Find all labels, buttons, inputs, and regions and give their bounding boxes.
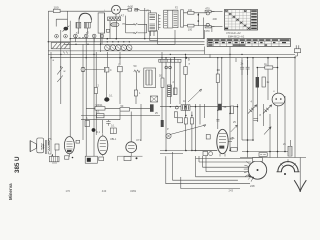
wire vertical x144.8 bbox=[144, 8, 146, 39]
capacitor bars x108 bbox=[106, 120, 110, 126]
wire speaker connections bbox=[49, 139, 51, 154]
svg-text:0,1: 0,1 bbox=[97, 131, 101, 134]
resistor diode load 1 bbox=[188, 11, 194, 14]
wire cap to cap bbox=[85, 69, 104, 71]
capacitor padder barrel bbox=[111, 23, 119, 27]
wire mid vertical x116.3 bbox=[115, 21, 117, 39]
wire IF1 tails bbox=[145, 11, 154, 37]
wire x221.8 vertical bbox=[221, 58, 223, 104]
box below IF1 bbox=[150, 31, 158, 41]
wire right vertical x285 bbox=[284, 96, 286, 152]
svg-text:400: 400 bbox=[213, 17, 218, 21]
wire middle bottom y150.5 bbox=[160, 150, 217, 152]
resistor vertical dark bottom right bbox=[288, 146, 292, 156]
resistor grid stopper bbox=[128, 8, 132, 11]
wire row y115.5 bbox=[81, 115, 160, 117]
svg-text:248: 248 bbox=[250, 184, 255, 188]
wire right vertical x268 bbox=[267, 58, 269, 100]
switch contact row circle 0b bbox=[64, 34, 68, 38]
wire speaker to phono box bbox=[52, 150, 55, 156]
wire mid vertical x94 bbox=[93, 38, 95, 156]
wire stub x236 bbox=[235, 58, 237, 62]
svg-text:0,1: 0,1 bbox=[111, 125, 115, 128]
junction dots mid buses bbox=[86, 38, 296, 59]
scattered tiny value labels bbox=[76, 7, 275, 143]
wire right y157.5 bbox=[240, 157, 306, 159]
svg-text:Minerva: Minerva bbox=[8, 183, 13, 200]
wire diode load vertical bbox=[197, 13, 199, 26]
electrolytic cap arrow 1 bbox=[248, 105, 257, 114]
wire return big L bbox=[166, 156, 250, 184]
wire to test point top bbox=[211, 12, 214, 27]
wire tube V2 top stub bbox=[102, 120, 104, 134]
wire top bus y11 bbox=[48, 10, 111, 12]
svg-text:4x50: 4x50 bbox=[128, 5, 134, 9]
resistor small box x78 bbox=[76, 140, 80, 143]
tube V4 base parts bbox=[192, 151, 218, 156]
switch contact row circle 4 bbox=[100, 34, 104, 38]
speaker cone bbox=[30, 141, 36, 152]
wire trimmer out 1 bbox=[211, 11, 222, 13]
wire row y106.7 right bbox=[160, 106, 238, 108]
wire row y119.7 bbox=[81, 119, 120, 121]
pot volume arrow bbox=[170, 125, 206, 135]
wire table corner up bbox=[204, 30, 206, 39]
resistor diode load 2 bbox=[188, 24, 194, 27]
resistor vertical box x185 row118 bbox=[184, 118, 187, 124]
wire right vertical x290 bbox=[290, 140, 292, 152]
resistor zigzag x136 bbox=[134, 70, 140, 73]
junction dot AVC 1 bbox=[198, 14, 200, 16]
wire row y106.7 bbox=[86, 107, 150, 109]
IF transformer 2 can bbox=[144, 68, 156, 88]
wire x230 vertical bbox=[229, 47, 231, 151]
tube V3 rectifier small circle bbox=[126, 142, 137, 156]
wire tube V1 to IF can bbox=[135, 9, 145, 12]
wire right vertical x253 bbox=[252, 58, 254, 140]
resistor vertical dark right1 bbox=[256, 77, 259, 88]
junction dots on bus bbox=[107, 41, 130, 42]
contact dots x167 bbox=[165, 66, 171, 69]
svg-text:243: 243 bbox=[229, 188, 234, 192]
ground arrow bottom right bbox=[294, 180, 306, 192]
capacitor mid column bbox=[104, 67, 109, 72]
wire arrow stem bbox=[299, 182, 301, 192]
junction dots right mid bbox=[247, 139, 286, 152]
resistor vertical x185 bbox=[184, 67, 187, 75]
junction dot S bbox=[185, 57, 187, 59]
boxes x113 row130 bbox=[110, 128, 116, 134]
resistor vertical x219 bbox=[216, 74, 219, 83]
capacitor blob x106 bbox=[104, 97, 109, 101]
svg-text:50011: 50011 bbox=[96, 103, 104, 107]
wire mid vertical x96 bbox=[95, 52, 97, 135]
wire tube V1 anode bbox=[120, 9, 128, 11]
motor dome half circle bbox=[277, 159, 300, 172]
wire mid vertical x110 bbox=[109, 21, 111, 39]
wire mid vertical x83 bbox=[82, 44, 84, 140]
wire x120 stub2 bbox=[119, 112, 121, 120]
tube V2 cathode box bbox=[85, 156, 97, 163]
coil antenna secondary box bbox=[84, 22, 90, 28]
junction dots left column bbox=[48, 38, 71, 68]
wire bus y54.4 bbox=[48, 53, 295, 55]
wire mid vertical x107 lower bbox=[106, 52, 109, 97]
electrolytic cap arrow 2 bbox=[263, 105, 272, 114]
phono switch box bottom left bbox=[49, 156, 59, 163]
wire IF2 verticals bbox=[162, 52, 175, 151]
coil horizontal dark x185 row107 bbox=[181, 105, 190, 111]
wire bottom long return bbox=[181, 177, 240, 189]
switch wafer diagonal left 2 bbox=[57, 76, 63, 83]
capacitor below tube A bbox=[65, 156, 74, 159]
resistor vertical x95 row88 bbox=[94, 88, 97, 94]
svg-text:0,1: 0,1 bbox=[96, 111, 100, 114]
wire mid vertical x120 lower bbox=[119, 72, 121, 104]
wire osc coil feed bbox=[126, 24, 147, 33]
capacitor ticks x218 bbox=[216, 119, 219, 121]
resistor small box x231 bottom bbox=[231, 148, 237, 152]
wire left vertical 2 bbox=[50, 52, 52, 140]
wire bus y50.9 bbox=[48, 50, 204, 52]
svg-text:C: C bbox=[118, 62, 120, 66]
wire return L4 bbox=[206, 171, 248, 173]
voltage table wide bbox=[207, 39, 290, 47]
IF transformer 1 can bbox=[148, 13, 156, 31]
resistor vertical dark x152 bbox=[150, 104, 154, 112]
wire right vertical x247.5 bbox=[247, 58, 249, 158]
coil vertical dark x169 bbox=[167, 85, 171, 97]
wire return verticals bbox=[196, 156, 207, 177]
wire right y151.5 bbox=[242, 151, 291, 153]
wire right vertical x277.5 bbox=[277, 58, 279, 158]
capacitor tuning gang hatched bbox=[51, 43, 70, 49]
svg-text:443: 443 bbox=[102, 189, 107, 193]
coil frame-antenna dome bbox=[79, 13, 92, 20]
wire return L2 bbox=[199, 161, 251, 163]
dial drum circle bbox=[244, 158, 267, 182]
box row114 bbox=[97, 114, 105, 118]
resistor vertical dark right2 bbox=[262, 77, 265, 87]
wire return L5 bbox=[196, 176, 251, 178]
switch contact row circle 3 bbox=[92, 34, 96, 38]
svg-text:100: 100 bbox=[188, 28, 193, 32]
wire vertical x146.7 bbox=[146, 24, 148, 33]
wire right vertical x295 bbox=[294, 56, 296, 158]
capacitor bars right mid bbox=[254, 119, 259, 121]
resistor antenna series bbox=[53, 9, 60, 12]
wire x191 vertical bbox=[191, 112, 193, 151]
svg-text:UY1: UY1 bbox=[136, 139, 141, 142]
tube V4 power oval bbox=[217, 129, 232, 156]
wire IF1 box out bbox=[158, 30, 176, 45]
dark circle x93 row130 bbox=[92, 128, 96, 132]
small box under V2 right bbox=[99, 157, 104, 161]
wire x212 drop bbox=[211, 27, 213, 32]
wire x141 vertical bbox=[140, 104, 142, 141]
wire dome legs bbox=[78, 20, 91, 34]
wire right vertical x270 bbox=[269, 114, 271, 158]
resistor near transformer bbox=[55, 144, 59, 150]
resistor vertical dark x220 row104 bbox=[218, 104, 222, 111]
pot with arrow right bbox=[264, 127, 271, 135]
ticks below hatch box bbox=[63, 52, 68, 54]
coil antenna primary box bbox=[76, 22, 81, 28]
wire x204.5 table drop bbox=[204, 47, 206, 55]
mains plug symbol bbox=[294, 45, 300, 56]
wire return L1 bbox=[196, 158, 253, 160]
speaker frame bbox=[37, 138, 44, 153]
dark coil x162 row120 bbox=[161, 120, 164, 127]
wire bus y57.7 bbox=[51, 57, 295, 59]
capacitor filter left2 bbox=[246, 60, 250, 75]
resistor horizontal row107b bbox=[120, 108, 130, 112]
wire mid vertical x120 bbox=[119, 52, 121, 65]
output transformer winding bbox=[43, 141, 49, 152]
dial lamp row circles bbox=[105, 45, 132, 50]
svg-text:w: w bbox=[64, 70, 66, 73]
capacitor small top bbox=[135, 9, 138, 12]
switch contact row circle 1 bbox=[74, 34, 78, 38]
wire stub x210 bbox=[209, 54, 211, 58]
wire mid vertical x104.6 bbox=[104, 13, 106, 33]
wire middle bottom y153.5 bbox=[160, 153, 183, 155]
junction dot below dome bbox=[284, 173, 286, 175]
coil detector column dashes bbox=[164, 13, 167, 26]
junction dots right top bbox=[170, 54, 279, 69]
junction dots center column bbox=[165, 106, 238, 151]
wire left vertical 4 bbox=[69, 21, 71, 137]
pot volume circle bbox=[166, 133, 171, 138]
wire antenna branch bbox=[56, 11, 67, 27]
wire right vertical x262 bbox=[263, 104, 265, 126]
alignment grid chart table bbox=[225, 10, 258, 31]
svg-text:470: 470 bbox=[205, 7, 210, 11]
wire x195.5 vertical bbox=[195, 104, 197, 151]
wire bus y38.7 bbox=[70, 38, 204, 40]
svg-text:1D: 1D bbox=[217, 68, 221, 72]
junction dots under circles bbox=[75, 44, 101, 45]
capacitor trimmer with arrow bbox=[63, 26, 70, 32]
switch contact pair band1 bbox=[133, 23, 137, 25]
wire x200 vertical bbox=[199, 104, 201, 125]
coil detector edgewise bbox=[173, 10, 178, 28]
wire IF1 out top bbox=[184, 13, 206, 26]
resistor output line 1 bbox=[205, 10, 211, 13]
svg-text:C: C bbox=[110, 68, 112, 72]
capacitor filter left bbox=[240, 60, 244, 75]
resistor horizontal long row107 bbox=[95, 107, 105, 111]
svg-text:S: S bbox=[188, 57, 190, 61]
label box near drum bbox=[259, 153, 267, 157]
wire right vertical x242 bbox=[241, 58, 243, 140]
svg-text:24: 24 bbox=[230, 137, 234, 141]
wire right vertical x257.3 bbox=[256, 68, 258, 123]
box x180 row120 bbox=[178, 118, 183, 123]
wire detector can sides bbox=[164, 10, 179, 28]
resistor vertical box x191 row118 bbox=[190, 118, 193, 124]
coil loop frame tall bbox=[98, 13, 105, 33]
wire mid vertical x126 bbox=[125, 16, 127, 25]
wire bus y44.3 bbox=[64, 43, 205, 45]
tube V3 base parts bbox=[118, 156, 143, 161]
wire mid vertical x86 bbox=[85, 38, 87, 156]
output transformer core bbox=[46, 140, 47, 154]
svg-text:385 U: 385 U bbox=[14, 156, 21, 173]
label dashes on bus bbox=[75, 37, 88, 39]
pot diagonal mid bbox=[188, 89, 202, 102]
wire tube V1 bottom stub bbox=[115, 14, 117, 17]
coil oscillator box with zigzag bbox=[108, 17, 121, 21]
svg-text:4369: 4369 bbox=[130, 189, 136, 193]
capacitor box x135 bbox=[134, 90, 137, 96]
tube V5 rectifier circle bbox=[272, 93, 285, 106]
wire return big L2 bbox=[173, 152, 238, 180]
capacitor pair left column bbox=[81, 68, 85, 72]
wire x185 vertical bbox=[185, 54, 187, 150]
switch box lower left bbox=[159, 59, 181, 62]
svg-text:470: 470 bbox=[205, 29, 210, 33]
trimmer circle 2 bbox=[206, 23, 209, 26]
wire left vertical 3 bbox=[60, 30, 62, 104]
resistor box x176 row112 bbox=[174, 112, 177, 118]
IF can 1 outline right bbox=[181, 10, 184, 27]
switch contact pair band2 bbox=[133, 32, 137, 34]
svg-text:470 kHz–A2: 470 kHz–A2 bbox=[226, 31, 241, 35]
wire contacts to bus bbox=[75, 38, 102, 45]
pot arrow x234 bbox=[231, 125, 237, 132]
speaker coil loops bbox=[41, 144, 42, 150]
wire dropper line bbox=[257, 67, 277, 69]
wire dome to arrow bbox=[299, 158, 301, 183]
svg-text:EM4 BC2–A2: EM4 BC2–A2 bbox=[228, 34, 245, 38]
svg-text:100: 100 bbox=[54, 6, 59, 10]
capacitor osc small bbox=[106, 29, 109, 32]
tube V2 output oval bbox=[98, 134, 108, 157]
resistor white box x232 bbox=[231, 106, 234, 114]
wire mid vertical x100.5 bbox=[100, 33, 102, 52]
resistor dropper horizontal bbox=[265, 66, 273, 69]
resistor output line 2 bbox=[205, 25, 211, 28]
small box x208 row135 bbox=[206, 135, 210, 140]
capacitor box x176 bbox=[173, 88, 177, 95]
IF transformer 1 secondary ticks bbox=[159, 14, 161, 30]
wire x237.5 vertical bbox=[237, 104, 239, 151]
small circle x177 row107 bbox=[175, 106, 178, 109]
tube V1 mixer top view bbox=[112, 5, 121, 14]
svg-text:170: 170 bbox=[66, 189, 71, 193]
wire tube V3 top stub bbox=[130, 112, 132, 142]
switch contact row circle 2 bbox=[84, 34, 88, 38]
capacitor x120 bbox=[118, 66, 123, 71]
trimmer circle 1 bbox=[206, 12, 209, 15]
switch contact row circle 0a bbox=[55, 34, 59, 38]
wire bus y41.8 bbox=[48, 41, 204, 43]
tube V2a AF oval bbox=[64, 137, 74, 157]
resistor vertical x163 bbox=[161, 78, 164, 88]
wire trimmer out 2 bbox=[211, 26, 222, 28]
box with X x154 bbox=[150, 96, 157, 102]
wire left boundary vertical bbox=[47, 11, 49, 145]
wire x180 vertical bbox=[179, 62, 181, 104]
junction dot AVC 2 bbox=[198, 20, 200, 22]
wire return L3 bbox=[203, 166, 249, 168]
wire x204 vertical bbox=[203, 104, 205, 118]
switch wafer diagonal left bbox=[57, 67, 63, 75]
box x87 row120 bbox=[85, 121, 90, 127]
svg-text:UBL1: UBL1 bbox=[110, 138, 117, 141]
wire AVC vertical x203.4 bbox=[202, 18, 204, 39]
svg-text:0,1: 0,1 bbox=[109, 95, 113, 98]
wire x217.8 vertical bbox=[217, 58, 219, 129]
wire zigzag drop bbox=[135, 73, 138, 105]
junction dot speaker bottom bbox=[52, 155, 53, 156]
wire right y140 bbox=[242, 139, 253, 141]
svg-text:100: 100 bbox=[188, 8, 193, 12]
